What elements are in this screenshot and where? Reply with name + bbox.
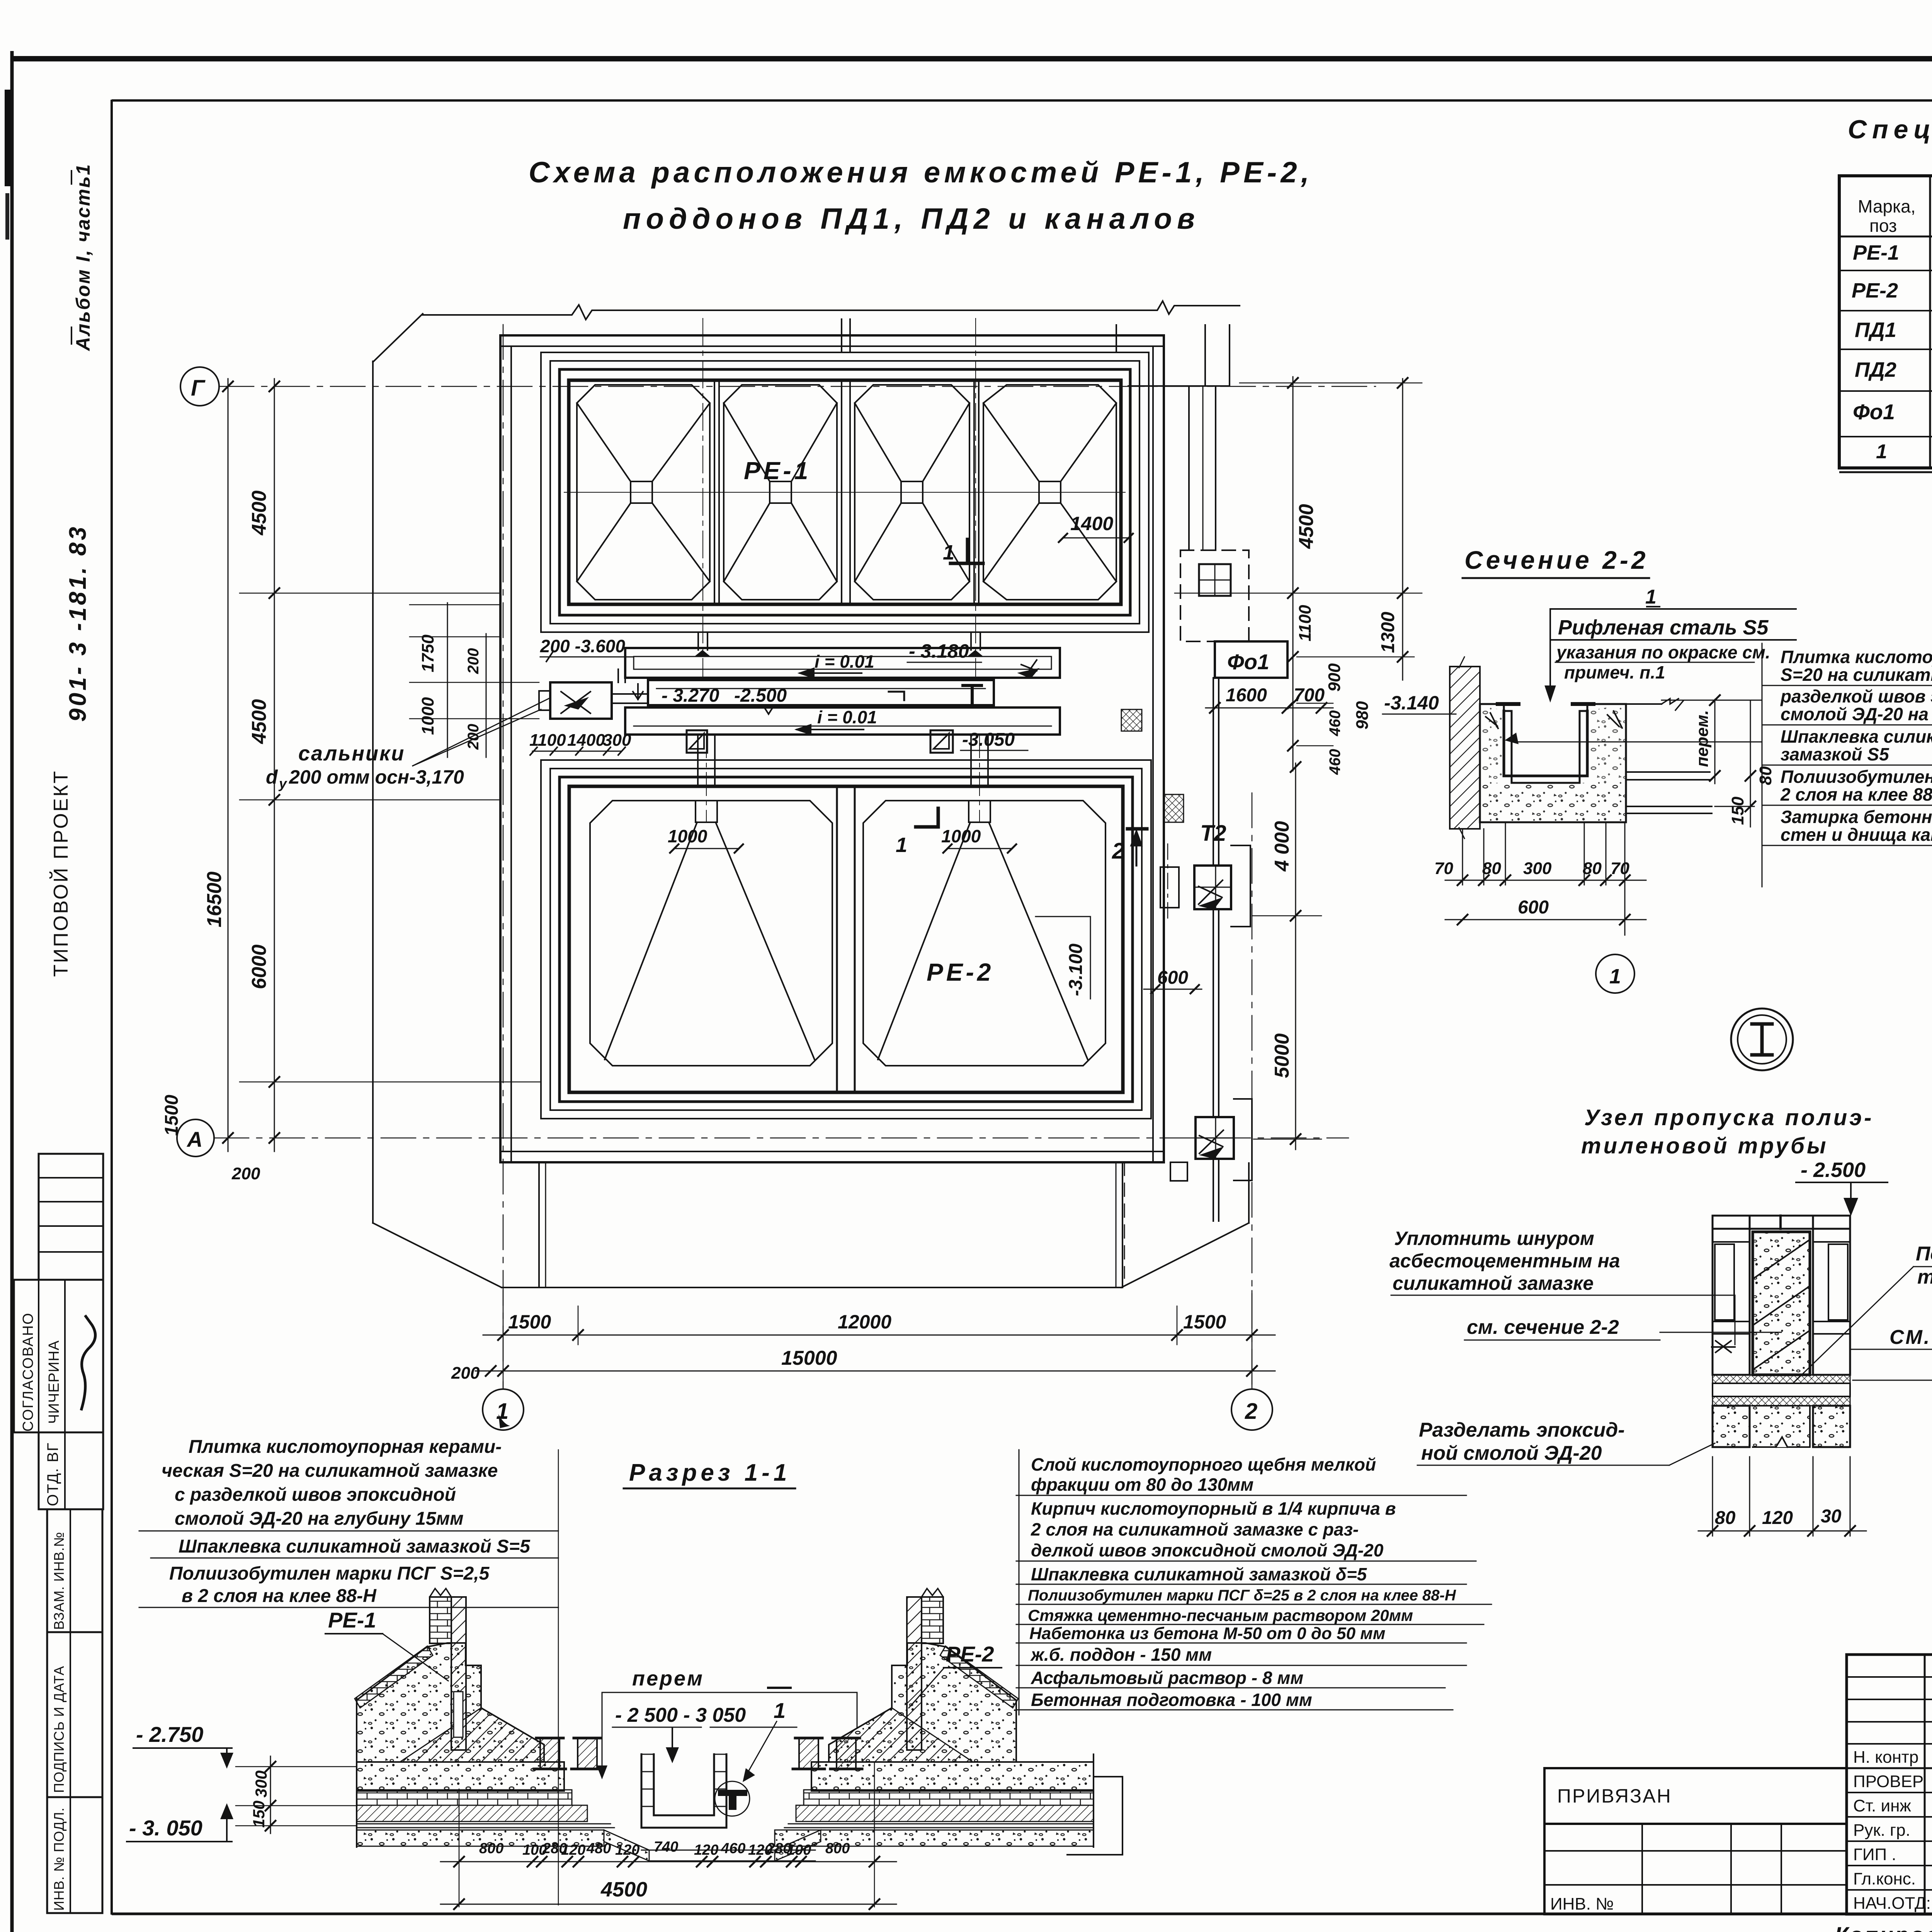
scan blobs left edge [5, 90, 11, 186]
inlet axes verticals [702, 318, 703, 678]
svg-text:Набетонка из бетона М-50 от: Набетонка из бетона М-50 от 0 до 50 мм [1029, 1624, 1385, 1643]
svg-text:Копировал: Хюппенен: Копировал: Хюппенен [1835, 1923, 1932, 1932]
svg-text:740: 740 [654, 1839, 678, 1855]
axis G [219, 386, 1376, 387]
svg-text:480: 480 [586, 1840, 611, 1857]
svg-text:901- 3 -181. 83: 901- 3 -181. 83 [65, 524, 91, 722]
svg-text:1600: 1600 [1226, 685, 1267, 706]
svg-text:1: 1 [496, 1399, 509, 1424]
svg-text:ПОДПИСЬ И ДАТА: ПОДПИСЬ И ДАТА [51, 1666, 67, 1793]
middle channel [648, 680, 994, 705]
corner wedges [1486, 711, 1622, 728]
wall at left hatched [1450, 667, 1480, 829]
drain circle detail mark [715, 1781, 750, 1816]
inner frame top line [112, 99, 1932, 102]
svg-text:- 2.750: - 2.750 [136, 1722, 203, 1747]
stamp box: vzam inv [47, 1509, 102, 1632]
svg-text:200: 200 [231, 1164, 260, 1183]
svg-text:1750: 1750 [418, 634, 437, 672]
svg-text:Полиизобутилен марки ПСГ δ=2: Полиизобутилен марки ПСГ δ=25 в 2 слоя н… [1028, 1587, 1456, 1604]
note: riffled steel [1550, 608, 1796, 610]
svg-text:1400: 1400 [1070, 513, 1113, 534]
svg-text:30: 30 [1821, 1506, 1842, 1527]
svg-text:Разделать эпоксид-: Разделать эпоксид- [1419, 1419, 1625, 1441]
PE-2 middle divider [836, 786, 838, 1092]
section I mark [768, 1687, 791, 1689]
svg-text:Разрез 1-1: Разрез 1-1 [629, 1459, 791, 1486]
svg-text:перем: перем [632, 1667, 704, 1690]
svg-text:2 слоя на силикатной замазк: 2 слоя на силикатной замазке с раз- [1031, 1519, 1359, 1539]
vertical dim 300/150 [270, 1756, 271, 1833]
svg-text:А: А [186, 1127, 202, 1151]
equipment square in pit [1199, 564, 1231, 596]
slope brick band [355, 1646, 433, 1708]
PE-1 centerline horizontal [564, 492, 1125, 493]
svg-text:12000: 12000 [838, 1311, 891, 1333]
embankment bottom line [502, 1287, 1121, 1288]
svg-text:ПРОВЕР: ПРОВЕР [1853, 1772, 1923, 1791]
leader arrow down to channel [1546, 609, 1555, 700]
crosshatch plug on pipe run [1164, 794, 1184, 822]
svg-text:ВЗАМ. ИНВ.№: ВЗАМ. ИНВ.№ [51, 1532, 67, 1630]
dim верх: перем vertical [1714, 699, 1716, 784]
svg-text:600: 600 [1157, 968, 1188, 988]
PE-2 cell left octagon [590, 801, 832, 1066]
floor drain boxes on lower channel [687, 730, 707, 753]
svg-text:труба ф 50 ℓ=250: труба ф 50 ℓ=250 [1917, 1266, 1932, 1288]
lower-left sub table [1544, 1824, 1847, 1914]
spec table frame [1839, 176, 1932, 468]
court top right [1116, 325, 1117, 352]
stamp boxes: approval block [39, 1154, 103, 1280]
floor line right of channel [1626, 771, 1710, 773]
tee mark section cut [963, 684, 981, 687]
svg-text:- 2 500 - 3 050: - 2 500 - 3 050 [615, 1704, 746, 1726]
left wall column [1713, 1216, 1750, 1375]
svg-text:5000: 5000 [1271, 1033, 1293, 1078]
svg-text:Шпаклевка силикатной замазко: Шпаклевка силикатной замазкой δ=5 [1031, 1564, 1367, 1584]
axis 2 [1252, 793, 1253, 1389]
svg-text:200: 200 [465, 648, 482, 674]
svg-text:с разделкой швов эпоксидной: с разделкой швов эпоксидной [175, 1485, 456, 1505]
bottom dim chain 1500/12000/1500 [483, 1335, 1275, 1336]
curb blocks right pair [799, 1738, 818, 1769]
svg-text:асбестоцементным на: асбестоцементным на [1389, 1250, 1620, 1272]
pipe shaft concrete fill [1753, 1232, 1810, 1375]
svg-text:Кирпич кислотоупорный в 1/4: Кирпич кислотоупорный в 1/4 кирпича в [1031, 1498, 1396, 1519]
svg-text:120: 120 [694, 1842, 718, 1858]
svg-text:Шпаклевка силикатной замазкой: Шпаклевка силикатной замазкой S=5 [179, 1536, 531, 1557]
bottom dim chain [459, 1789, 460, 1907]
axis A [214, 1138, 1349, 1139]
spec table column lines [1929, 176, 1931, 468]
svg-text:РЕ-1: РЕ-1 [744, 457, 811, 485]
svg-text:1100: 1100 [1296, 605, 1315, 641]
svg-text:замазкой S5: замазкой S5 [1781, 744, 1889, 764]
section flag 1 lower [916, 825, 938, 829]
MARK:S22B [1389, 1105, 1932, 1536]
axis circle 1 below section [1596, 954, 1634, 993]
left mound hatch lower [400, 1708, 544, 1762]
staff rows text [1853, 1748, 1932, 1913]
svg-text:Полиизобутилен марки ПСГ S=: Полиизобутилен марки ПСГ S=2,5 [169, 1563, 490, 1584]
svg-text:фракции от 80 до 13: фракции от 80 до 130мм [1031, 1475, 1253, 1495]
svg-text:разделкой швов эпоксидной: разделкой швов эпоксидной [1780, 686, 1932, 706]
svg-text:4500: 4500 [1295, 504, 1318, 549]
svg-text:примеч. п.1: примеч. п.1 [1564, 662, 1665, 682]
svg-text:800: 800 [825, 1840, 850, 1857]
top surface line right [1626, 703, 1662, 705]
svg-text:4500: 4500 [600, 1878, 647, 1901]
svg-text:200: 200 [465, 724, 482, 750]
signature squiggle [81, 1315, 95, 1410]
svg-text:ной смолой ЭД-20: ной смолой ЭД-20 [1421, 1442, 1602, 1464]
embankment bottom-right chamfer [1121, 1223, 1249, 1287]
svg-text:460: 460 [1327, 710, 1344, 736]
svg-text:200: 200 [451, 1364, 480, 1383]
svg-text:Схема расположения емкостей: Схема расположения емкостей РЕ-1, РЕ-2, [529, 156, 1313, 189]
svg-text:d: d [266, 766, 278, 788]
pipe run below Fo1 [1213, 678, 1214, 866]
svg-text:- 3.270: - 3.270 [662, 685, 719, 706]
svg-text:сальники: сальники [298, 742, 405, 765]
svg-text:Уплотнить шнуром: Уплотнить шнуром [1394, 1228, 1594, 1249]
svg-text:1: 1 [774, 1698, 786, 1723]
svg-text:РЕ-2: РЕ-2 [927, 958, 994, 986]
building wall bottom double [500, 1151, 1164, 1152]
PE-1 hopper cell 2 [724, 385, 837, 600]
svg-text:S=20 на силикатной замазке: S=20 на силикатной замазке [1781, 665, 1932, 685]
svg-text:ПД1: ПД1 [1855, 318, 1896, 342]
svg-text:Стяжка цементно-песчаным рас: Стяжка цементно-песчаным раствором 20мм [1028, 1606, 1413, 1624]
svg-text:Ст. инж: Ст. инж [1853, 1796, 1911, 1815]
feed pipes above PE-1 [841, 318, 842, 352]
PE-2 dim 1000 right [947, 848, 1012, 849]
svg-text:150: 150 [250, 1801, 268, 1828]
staff table frame [1847, 1655, 1932, 1914]
svg-text:делкой швов эпоксидной смол: делкой швов эпоксидной смолой ЭД-20 [1031, 1540, 1384, 1560]
svg-text:70: 70 [1611, 859, 1629, 878]
dim 1400 top right [1063, 537, 1129, 539]
PE-1 feed pipes to channel [697, 632, 699, 650]
wall stubs below building [538, 1162, 540, 1287]
svg-text:перем.: перем. [1693, 710, 1712, 767]
svg-text:1300: 1300 [1378, 612, 1398, 653]
right mound [829, 1643, 1016, 1762]
embankment top line with breaks [423, 301, 1240, 320]
PE-1 hopper cell 3 [855, 385, 969, 600]
svg-text:Шпаклевка силикатной: Шпаклевка силикатной [1781, 726, 1932, 747]
svg-text:6000: 6000 [248, 944, 270, 989]
svg-text:Н. контр: Н. контр [1853, 1748, 1918, 1767]
brick column left [430, 1597, 451, 1643]
svg-text:ИНВ. № ПОДЛ.: ИНВ. № ПОДЛ. [51, 1807, 67, 1911]
svg-text:150: 150 [1728, 796, 1747, 825]
outer top border thick line [10, 56, 1932, 61]
bracket right of sleeve [1231, 845, 1250, 927]
svg-text:200 отм осн-3,170: 200 отм осн-3,170 [289, 766, 464, 788]
svg-text:1000: 1000 [941, 826, 981, 846]
section flag 1 in PE-1 [951, 562, 983, 565]
svg-text:Спецификация к схеме распо: Спецификация к схеме расположения [1848, 115, 1932, 144]
svg-text:i = 0.01: i = 0.01 [815, 651, 874, 672]
svg-text:РЕ-2: РЕ-2 [946, 1642, 994, 1666]
bottom dims 80 120 30 [1712, 1457, 1713, 1536]
svg-text:стен и днища канала: стен и днища канала [1781, 825, 1932, 845]
svg-text:ПД2: ПД2 [1855, 358, 1896, 381]
svg-text:СОГЛАСОВАНО: СОГЛАСОВАНО [20, 1312, 36, 1432]
right wall column [1813, 1216, 1850, 1375]
svg-text:Сечение 2-2: Сечение 2-2 [1464, 546, 1649, 574]
svg-text:600: 600 [1518, 897, 1549, 918]
svg-text:ЧИЧЕРИНА: ЧИЧЕРИНА [46, 1340, 62, 1424]
svg-text:ТИПОВОЙ ПРОЕКТ: ТИПОВОЙ ПРОЕКТ [49, 770, 72, 977]
embankment bottom-left chamfer [373, 1223, 502, 1287]
svg-text:смолой ЭД-20 на глубину: смолой ЭД-20 на глубину 15мм [1781, 704, 1932, 724]
left dim chain 16500 [228, 379, 229, 1151]
svg-text:у: у [278, 776, 287, 791]
svg-text:-2.500: -2.500 [734, 685, 787, 706]
svg-text:300: 300 [252, 1770, 270, 1798]
svg-text:900: 900 [1325, 663, 1344, 692]
PE-2 feed pipes from channel [697, 735, 699, 786]
svg-text:Асфальтовый раствор - 8 мм: Асфальтовый раствор - 8 мм [1031, 1668, 1303, 1688]
svg-text:Полиэтиленовая: Полиэтиленовая [1916, 1243, 1932, 1265]
svg-text:Полиизобутилен марки ПСГ δ2,: Полиизобутилен марки ПСГ δ2,5 в [1781, 767, 1932, 787]
wall pocket left of sleeve [1160, 867, 1179, 908]
svg-text:2: 2 [1112, 838, 1124, 864]
stamp box: soglasovano / signature row [14, 1280, 103, 1432]
PE-1 hopper cell 1 [577, 385, 710, 600]
legs below [1713, 1406, 1750, 1447]
svg-text:поддонов ПД1, ПД2 и каналов: поддонов ПД1, ПД2 и каналов [623, 202, 1199, 235]
asbestos packing marks [1712, 1341, 1735, 1352]
PE-2 cell right octagon [863, 801, 1105, 1066]
right notes list [1019, 1450, 1020, 1715]
svg-text:80: 80 [1756, 766, 1775, 785]
svg-text:ческая S=20 на силикатной з: ческая S=20 на силикатной замазке [162, 1461, 498, 1481]
svg-text:460: 460 [721, 1840, 745, 1857]
svg-text:РЕ-1: РЕ-1 [1853, 241, 1899, 264]
svg-text:120: 120 [615, 1842, 639, 1858]
svg-text:1500: 1500 [1183, 1311, 1226, 1333]
svg-text:980: 980 [1353, 701, 1372, 730]
svg-text:80: 80 [1583, 859, 1602, 878]
dashed pit rect [1180, 550, 1249, 641]
svg-text:РЕ-2: РЕ-2 [1852, 279, 1898, 302]
bottom layered bands [1713, 1375, 1850, 1383]
elevation -2.875 [1853, 1380, 1932, 1381]
svg-text:Марка,: Марка, [1858, 196, 1916, 216]
svg-text:4500: 4500 [248, 699, 270, 744]
dim 80 and 150 [1750, 700, 1751, 827]
svg-text:ОТД. ВГ: ОТД. ВГ [44, 1442, 61, 1506]
privyazan box [1544, 1768, 1847, 1824]
svg-text:16500: 16500 [203, 871, 226, 927]
svg-text:тиленовой трубы: тиленовой трубы [1581, 1133, 1828, 1158]
svg-text:100: 100 [787, 1842, 811, 1858]
svg-text:120: 120 [561, 1842, 585, 1858]
svg-text:Гл.конс.: Гл.конс. [1853, 1869, 1916, 1888]
embankment outline left vertical [372, 361, 374, 1223]
svg-text:1: 1 [896, 833, 907, 857]
svg-text:300: 300 [603, 731, 631, 750]
tank PE-2 nested walls [541, 760, 1151, 1119]
PE-2 dim 1000 left [674, 848, 739, 849]
pipe run continues [1213, 909, 1214, 1117]
node circle with I-beam [1731, 1009, 1793, 1070]
svg-text:4500: 4500 [248, 490, 270, 536]
svg-text:смолой ЭД-20 на глубину 15м: смолой ЭД-20 на глубину 15мм [175, 1509, 464, 1529]
svg-text:Фо1: Фо1 [1227, 650, 1269, 674]
embankment chamfer top-left [373, 314, 423, 362]
svg-text:ж.б. поддон - 15: ж.б. поддон - 150 мм [1030, 1645, 1212, 1665]
svg-text:i = 0.01: i = 0.01 [817, 707, 877, 727]
staff table column lines [1924, 1655, 1926, 1914]
sump pit left [550, 682, 612, 719]
svg-text:НАЧ.ОТД:: НАЧ.ОТД: [1853, 1894, 1931, 1913]
PE-2 right hopper [969, 801, 990, 822]
svg-text:ИНВ. №: ИНВ. № [1550, 1895, 1614, 1913]
svg-text:-3.100: -3.100 [1066, 944, 1086, 996]
MARK:RAZREZB [1544, 1655, 1932, 1932]
svg-text:Бетонная подготовка - 100 мм: Бетонная подготовка - 100 мм [1031, 1690, 1312, 1710]
labels right [1916, 1243, 1932, 1288]
hatch mark at channel right [1020, 660, 1037, 678]
PE-1 cell dividers [714, 380, 715, 604]
axis 1 [503, 325, 504, 1389]
svg-text:- 3.180: - 3.180 [909, 640, 969, 662]
svg-text:Затирка бетонной поверхности: Затирка бетонной поверхности [1781, 807, 1932, 827]
svg-text:300: 300 [1523, 859, 1552, 878]
curb blocks left pair [540, 1738, 560, 1769]
svg-text:1: 1 [1645, 586, 1656, 608]
building wall right double [1152, 346, 1154, 1162]
bottom dims 70 80 300 80 70 / 600 [1462, 829, 1463, 885]
svg-text:1: 1 [1876, 440, 1887, 463]
svg-text:Г: Г [191, 376, 206, 401]
svg-text:80: 80 [1715, 1508, 1736, 1528]
svg-text:ГИП .: ГИП . [1853, 1845, 1896, 1864]
svg-text:Альбом I, часть1: Альбом I, часть1 [72, 163, 94, 352]
base layers right [811, 1762, 1094, 1791]
concrete speckle fill [1480, 783, 1626, 822]
svg-text:- 3. 050: - 3. 050 [129, 1816, 202, 1840]
extension lines to axis circles [503, 1291, 504, 1388]
upper channel [625, 648, 1060, 678]
svg-text:СМ. РАЗРЕЗ 1-1: СМ. РАЗРЕЗ 1-1 [1889, 1326, 1932, 1349]
spec table row lines [1839, 236, 1932, 238]
labels left [1389, 1228, 1620, 1294]
left notes block [162, 1437, 531, 1606]
svg-text:Плитка кислотоупорная керами: Плитка кислотоупорная керами- [189, 1437, 502, 1457]
svg-text:800: 800 [479, 1840, 503, 1857]
svg-text:2 слоя на клее 88-Н: 2 слоя на клее 88-Н [1780, 784, 1932, 804]
leader from notes to channel [1512, 742, 1762, 743]
svg-text:700: 700 [1294, 685, 1325, 706]
left dim chain 4500/4500/6000/1500 [274, 379, 275, 1151]
svg-text:Слой кислотоупорного щебня: Слой кислотоупорного щебня мелкой [1031, 1454, 1376, 1475]
building wall top double [500, 334, 1164, 337]
svg-text:Рифленая сталь S5: Рифленая сталь S5 [1558, 616, 1769, 639]
building wall left double [499, 335, 502, 1162]
staff data rows [1847, 1767, 1932, 1769]
svg-text:460: 460 [1327, 749, 1344, 775]
tank PE-1 nested walls [541, 352, 1149, 632]
svg-text:Плитка кислотоупорная керами: Плитка кислотоупорная керамическая [1781, 647, 1932, 667]
svg-text:1: 1 [943, 541, 954, 564]
svg-text:1500: 1500 [162, 1095, 182, 1136]
PE-1 hopper cell 4 [983, 385, 1116, 600]
PE-2 left hopper [696, 801, 717, 822]
svg-text:1000: 1000 [668, 826, 707, 846]
stamp box: OTD VG [39, 1432, 103, 1509]
top cap [1713, 1216, 1850, 1229]
svg-text:поз: поз [1869, 216, 1897, 236]
svg-text:Фо1: Фо1 [1853, 400, 1895, 424]
bottom dim chain 15000 [475, 1371, 1275, 1372]
svg-text:1100: 1100 [529, 731, 566, 750]
outer left border line [10, 51, 14, 1932]
svg-text:1: 1 [1609, 965, 1621, 988]
svg-text:-3.140: -3.140 [1384, 692, 1439, 714]
lower channel [625, 707, 1060, 735]
svg-text:- 2.500: - 2.500 [1801, 1158, 1866, 1182]
stamp box: podpis i data [47, 1632, 102, 1797]
right dim chain 4500/1300 [1293, 377, 1294, 771]
sleeve box upper with cross [1194, 866, 1231, 909]
stamp box: inv n podl [47, 1797, 102, 1913]
svg-text:120: 120 [1762, 1508, 1793, 1528]
svg-text:указания по окраске см.: указания по окраске см. [1556, 642, 1770, 662]
svg-text:70: 70 [1434, 859, 1453, 878]
svg-text:силикатной замазке: силикатной замазке [1393, 1272, 1594, 1294]
notes list right of section [1762, 643, 1932, 887]
svg-text:Узел пропуска полиэ-: Узел пропуска полиэ- [1584, 1105, 1874, 1130]
left mound: speckled embankment [357, 1643, 544, 1762]
svg-text:РЕ-1: РЕ-1 [328, 1608, 376, 1632]
svg-text:15000: 15000 [781, 1347, 837, 1369]
channel trough steel liner [1504, 711, 1587, 776]
svg-text:в 2 слоя на клее 88-Н: в 2 слоя на клее 88-Н [182, 1586, 377, 1606]
svg-text:ПРИВЯЗАН: ПРИВЯЗАН [1557, 1785, 1672, 1807]
MARK:PLAN2 [1434, 546, 1932, 1070]
svg-text:Рук. гр.: Рук. гр. [1853, 1821, 1910, 1840]
walls to foundation Fo1 [1188, 386, 1190, 550]
right dim chain 4000/5000 [1295, 763, 1296, 1150]
inner frame left line [111, 100, 113, 1915]
bottom sleeve box with cross [1196, 1117, 1234, 1159]
staff narrow rows top [1847, 1676, 1932, 1678]
MARK:UZELB [127, 1437, 1492, 1909]
svg-text:см. сечение 2-2: см. сечение 2-2 [1467, 1316, 1619, 1338]
channel concrete body [1480, 704, 1626, 822]
inner frame bottom line [112, 1913, 1932, 1915]
center trench [641, 1754, 726, 1828]
svg-text:1400: 1400 [567, 731, 605, 750]
svg-text:1500: 1500 [508, 1311, 551, 1333]
svg-text:4 000: 4 000 [1271, 821, 1293, 872]
crosshatch plug right of lower channel [1121, 709, 1142, 731]
base layers left [357, 1762, 564, 1791]
svg-text:2: 2 [1245, 1399, 1257, 1424]
svg-text:1000: 1000 [418, 697, 437, 735]
foundation Fo1 [1215, 641, 1287, 678]
svg-text:80: 80 [1482, 859, 1501, 878]
